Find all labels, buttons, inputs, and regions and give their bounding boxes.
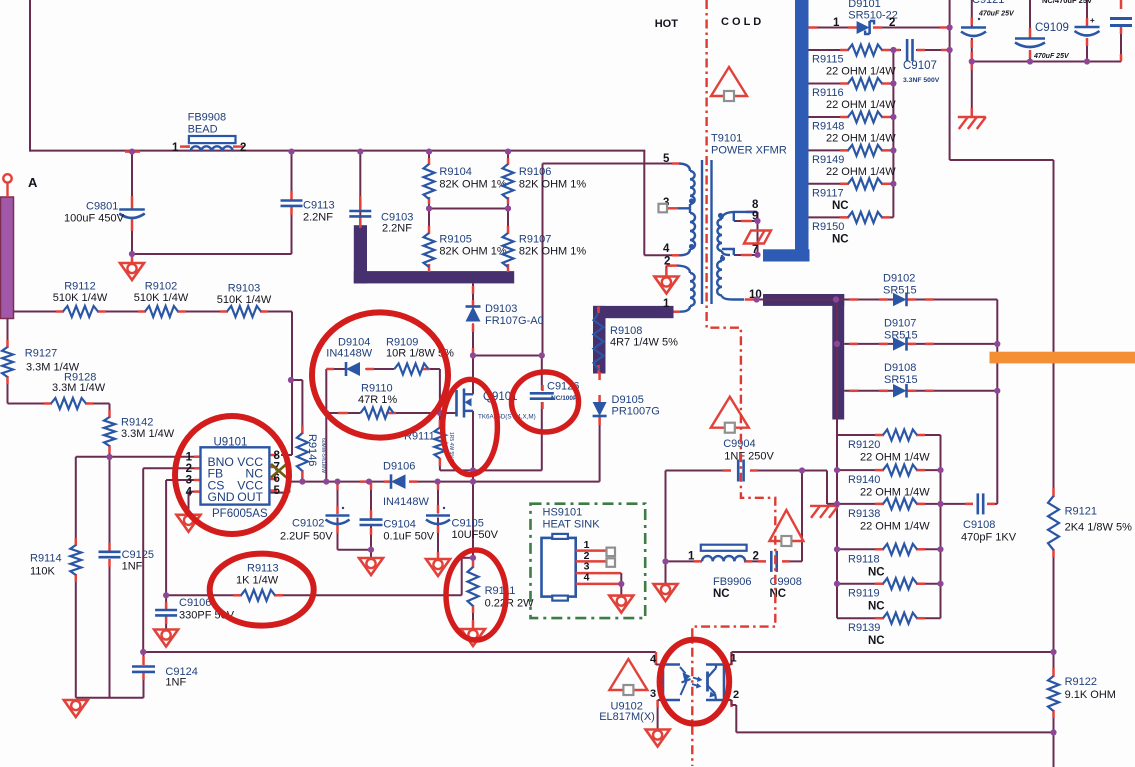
resistor R9103 [217,283,272,318]
wire diode row D9107 [844,343,997,345]
orange highlight bar [990,352,1135,364]
ground symbol C9104 [359,557,383,575]
svg-text:1: 1 [688,551,695,563]
wire R9111 gate stub [439,413,441,470]
wire R9115 ladder rows [809,50,894,217]
wire R9120 row [837,434,941,436]
wire R9119 row [837,583,941,585]
diode D9105 [593,394,660,418]
wire opto pin2 rail [736,652,1053,767]
svg-text:R9112: R9112 [64,281,96,293]
svg-text:R9118: R9118 [848,553,880,565]
svg-text:4: 4 [650,654,657,666]
svg-text:R9122: R9122 [1065,676,1097,688]
wire FB9906 row [666,560,803,562]
svg-text:HEAT SINK: HEAT SINK [543,519,601,531]
warning triangle COLD top [711,67,747,101]
wire mosfet source lead [465,411,474,558]
chassis ground top right [958,117,986,129]
optocoupler pin labels [650,653,739,702]
ground symbol sense resistor [461,628,485,646]
svg-text:HOT: HOT [655,18,679,30]
warning triangle C9908 [769,510,803,546]
svg-text:NC/100P: NC/100P [551,395,578,402]
wire cap columns C9102 C9104 C9105 [338,482,439,559]
svg-text:R9120: R9120 [848,439,880,451]
resistor R9115 [812,45,896,78]
svg-text:510K 1/4W: 510K 1/4W [217,294,272,306]
svg-text:1NF: 1NF [122,561,143,573]
svg-text:C9104: C9104 [383,519,415,531]
svg-text:C9801: C9801 [86,201,118,213]
optocoupler U9102 label [599,701,655,723]
annotation circle C9126 [512,372,579,432]
wire FB9906 ground drop [665,561,667,584]
heat sink pins [576,539,625,596]
wire sense resistor to ground [472,606,474,628]
svg-text:C9107: C9107 [903,60,937,72]
wire C9107 row [893,49,949,51]
wire R9104 top stub [428,152,430,164]
transformer pin 3 label [663,197,669,209]
svg-text:C9108: C9108 [963,519,995,531]
wire overlay pin10 through bar [757,300,845,426]
optocoupler pin steps [656,652,737,732]
svg-text:1: 1 [663,298,670,310]
wire diode row D9102 [844,300,997,504]
svg-text:82K OHM 1%: 82K OHM 1% [519,246,586,258]
svg-text:R9138: R9138 [848,508,880,520]
capacitor C9103 [349,211,413,235]
svg-text:C9113: C9113 [303,200,335,212]
transformer pin 2 label [664,256,670,268]
svg-text:8: 8 [752,199,759,211]
svg-text:NC/470uF 25V: NC/470uF 25V [1042,0,1092,5]
svg-text:PF6005AS: PF6005AS [212,508,268,520]
wire drain column [473,283,542,390]
svg-text:3.3M 1/4W: 3.3M 1/4W [52,382,106,394]
svg-text:2: 2 [186,463,192,475]
transformer pin 1 label [663,298,670,310]
wire pin5 row U9101 [269,482,599,493]
svg-text:R9103: R9103 [228,283,260,295]
capacitor C9125 [99,549,155,573]
svg-text:R9114: R9114 [30,553,62,565]
resistor R9149 [812,145,896,178]
svg-text:NC: NC [713,588,730,600]
wire mosfet drain lead [465,356,474,395]
wire ground row under C9801 [131,207,292,254]
resistor R9119 [848,578,917,613]
wire R9139 row [837,617,941,619]
svg-text:D9101: D9101 [848,0,880,10]
svg-text:SR515: SR515 [884,330,918,342]
svg-text:3: 3 [650,688,656,700]
svg-text:R9150: R9150 [812,221,844,233]
svg-text:NC: NC [770,588,787,600]
svg-text:D9102: D9102 [883,273,915,285]
svg-text:4: 4 [584,571,590,583]
svg-text:D9107: D9107 [884,318,916,330]
resistor R9108 on bar [594,307,679,371]
bus bar C9103 L-shape [354,225,514,283]
ferrite bead FB9906 [688,545,759,600]
svg-text:OUT: OUT [237,490,263,504]
svg-text:8: 8 [274,450,281,462]
resistor R9111 sense 0.22R [468,567,535,610]
wire R9112 row [13,311,292,313]
svg-text:R9149: R9149 [812,154,844,166]
annotation circle Q9101 [443,379,498,474]
wire pin4 ground stub [189,492,195,514]
svg-text:R9146: R9146 [306,434,318,466]
capacitor C9107 [903,39,940,84]
svg-text:22 OHM 1/4W: 22 OHM 1/4W [826,66,896,78]
svg-text:R9113: R9113 [247,563,279,575]
ground symbol heat sink [609,595,633,613]
svg-text:110K: 110K [30,566,56,578]
resistor R9138 [848,498,930,532]
annotation circle sense resistor [446,550,506,640]
svg-text:4R7 1/4W 5%: 4R7 1/4W 5% [610,337,678,349]
capacitor C9104 [360,519,435,543]
transformer primary winding 2-1 [677,266,695,312]
svg-text:C9105: C9105 [452,518,484,530]
svg-text:D9108: D9108 [884,362,916,374]
wire ladder right column [940,435,942,618]
svg-text:TK6A65D(ST 4,X,M): TK6A65D(ST 4,X,M) [478,414,536,421]
resistor R9109 [386,337,454,375]
svg-text:NC: NC [832,200,849,212]
svg-text:9.1K OHM: 9.1K OHM [1065,689,1116,701]
wire C9904 row [666,471,828,562]
resistor R9142 [104,417,175,447]
transformer pin 7 label [752,244,758,256]
resistor R9105 [424,233,507,267]
optocoupler U9102 body [663,665,724,701]
transformer pin 5 label [663,153,670,165]
svg-text:2: 2 [664,256,670,268]
svg-text:POWER XFMR: POWER XFMR [711,145,787,157]
capacitor C9904 [723,438,774,482]
resistor R9140 [848,465,930,499]
wire opto pin3 drop [657,701,659,729]
svg-text:22 OHM 1/4W: 22 OHM 1/4W [826,166,896,178]
resistor R9148 [812,112,896,145]
bus bar blue secondary [763,0,810,262]
svg-text:NC: NC [868,601,885,613]
svg-text:FB9906: FB9906 [713,576,752,588]
svg-text:PR1007G: PR1007G [612,406,660,418]
svg-text:5: 5 [274,485,281,497]
svg-text:BEAD: BEAD [188,124,218,136]
wire bottom right rail [732,651,1054,653]
svg-text:SR515: SR515 [883,285,917,297]
wire cap bus top right [972,0,1121,117]
diode D9101 [833,0,898,34]
wire ladder left column [836,300,838,619]
ground symbol left bus [64,699,88,717]
wire R9146 branch [291,380,302,482]
svg-text:R9115: R9115 [812,54,844,66]
svg-text:IN4148W: IN4148W [383,496,429,508]
resistor R9139 [848,613,917,648]
resistor R9120 [848,430,930,464]
capacitor C9908 [770,551,802,600]
resistor R9150 [812,212,882,246]
transformer pin 8 label [752,199,759,211]
svg-text:1NF: 1NF [165,677,186,689]
svg-text:4: 4 [663,243,670,255]
capacitor C9113 [281,200,335,224]
svg-text:3.3M 1/4W: 3.3M 1/4W [121,428,175,440]
wire diode row D9108 [844,390,997,392]
svg-text:NC: NC [868,635,885,647]
svg-text:R9106: R9106 [519,166,551,178]
svg-text:510K 1/4W: 510K 1/4W [134,292,189,304]
resistor R9116 [812,78,896,111]
resistor R9113 [236,563,279,601]
capacitor C9109 [1015,22,1070,60]
svg-text:C9109: C9109 [1035,22,1069,34]
resistor R9122 [1048,676,1116,711]
capacitor C9108 [961,493,1017,543]
svg-text:2: 2 [753,551,759,563]
svg-text:R9102: R9102 [145,281,177,293]
wire C9103 column [359,152,361,226]
svg-text:1: 1 [833,17,840,29]
wire pin2 xfmr ground stub [666,266,672,276]
diode D9103 [466,303,544,327]
mosfet Q9101 [457,389,536,421]
resistor R9110 [358,383,397,419]
wire pin5 feeder [543,164,674,357]
resistor R9107 [503,233,587,267]
wire source row to C9126 [440,402,542,470]
wire pin10 row through bar [745,299,845,301]
resistor R9104 [424,164,507,199]
diode D9108 [884,362,918,398]
wire pin2 riser [143,468,194,652]
wire long bottom rail [144,652,656,665]
resistor R9118 [848,544,917,579]
wire R9106 top stub [507,152,509,164]
transformer secondary winding 7-10 [717,249,744,300]
warning flag parallelogram [744,231,771,244]
svg-text:R9111: R9111 [485,585,516,597]
svg-text:D9103: D9103 [485,303,517,315]
svg-text:U9101: U9101 [214,437,248,449]
svg-text:2: 2 [240,142,246,154]
wire D9101 row [809,27,950,29]
wire R9109 to gate corner [365,369,440,413]
svg-text:C9125: C9125 [122,549,154,561]
svg-text:2.2NF: 2.2NF [382,223,412,235]
svg-text:470uF 25V: 470uF 25V [978,11,1015,18]
svg-text:2.2UF 50V: 2.2UF 50V [280,531,333,543]
svg-text:D9106: D9106 [383,461,415,473]
ground symbol U9101 pin4 [177,514,201,532]
svg-text:2: 2 [889,17,895,29]
capacitor top right corner [1110,19,1132,26]
label D9103 top cut text [0,0,1,1]
svg-text:0.22R 2W: 0.22R 2W [485,598,535,610]
svg-text:FR107G-A0: FR107G-A0 [485,315,544,327]
wire right column x950 [950,0,1054,652]
capacitor C9106 [155,597,235,622]
resistor R9121 [1048,496,1132,550]
ferrite bead FB9908 [172,112,246,155]
bus bar transformer pin1 [593,306,674,374]
svg-text:NC: NC [868,566,885,578]
svg-text:82K OHM 1%: 82K OHM 1% [439,179,506,191]
svg-text:10UF50V: 10UF50V [452,529,499,541]
bus bar input magenta [1,197,14,319]
svg-text:470pF 1KV: 470pF 1KV [961,532,1017,544]
bus bar transformer pin10 [763,294,844,420]
svg-text:R9105: R9105 [439,234,471,246]
svg-text:R9127: R9127 [25,348,57,360]
ground symbol C9105 [426,558,450,576]
svg-text:1: 1 [186,451,193,463]
wire C9108 row [941,503,998,505]
svg-text:SR515: SR515 [884,374,918,386]
wire R9140 row [837,469,941,471]
svg-text:R9110: R9110 [361,383,393,395]
wire C9124 top [143,652,145,664]
wire pin3 riser [166,480,194,595]
svg-text:82K OHM 1%: 82K OHM 1% [439,246,506,258]
resistor R9127 [2,347,80,377]
svg-text:1K 1/4W: 1K 1/4W [236,575,279,587]
svg-text:R9104: R9104 [439,166,471,178]
ground symbol C9106 [154,629,178,647]
capacitor NC/470uF [1042,0,1100,36]
wire main top bus [30,0,673,255]
svg-text:C O L D: C O L D [721,16,761,28]
capacitor C9126 [530,381,580,402]
wire R9127 chain [8,319,110,458]
svg-text:R9121: R9121 [1065,506,1097,518]
annotation circle D9104 R9110 [312,312,448,437]
svg-text:FB9908: FB9908 [188,112,227,124]
svg-text:47R 1%: 47R 1% [358,394,397,406]
wire D9105 column [599,416,601,482]
capacitor C9801 [64,201,145,225]
resistor R9117 [812,178,882,212]
wire cap4 column [1120,0,1122,62]
annotation circle U9102 opto [660,640,730,724]
svg-text:2.2NF: 2.2NF [303,212,333,224]
wire R9138 row [827,503,941,505]
resistor R9106 [503,164,587,199]
svg-text:4: 4 [186,486,193,498]
wire R9114 column [75,457,77,698]
wire C9125 column [109,457,111,698]
wire R9105 R9107 bottoms to bar [429,267,508,272]
svg-text:22 OHM 1/4W: 22 OHM 1/4W [860,487,930,499]
transformer secondary winding 8-7 [718,212,757,255]
wire R9104-R9106 mid row [429,199,508,233]
svg-text:100uF 450V: 100uF 450V [64,213,125,225]
svg-text:R9117: R9117 [812,187,844,199]
svg-text:C9904: C9904 [723,438,755,450]
resistor R9111 gate [404,428,454,467]
warning triangle C9904 [711,397,749,433]
svg-text:EL817M(X): EL817M(X) [599,711,655,723]
capacitor C9105 [426,507,499,541]
svg-text:1: 1 [172,142,179,154]
svg-text:HS9101: HS9101 [543,507,583,519]
transformer primary winding 3-4 [679,208,695,255]
diode D9106 [383,461,429,509]
chassis ground R9138 row [810,506,838,518]
wire C9106 stub [165,595,167,629]
annotation circle R9113 [210,554,314,626]
heat sink HS9101 box [531,504,646,618]
transformer primary winding 5-3 [678,164,695,209]
wire R9118 row [837,548,941,550]
resistor R9114 [30,545,81,578]
resistor R9102 [134,281,189,318]
svg-text:+: + [1090,16,1095,25]
svg-text:82K OHM 1%: 82K OHM 1% [519,179,586,191]
capacitor C9124 [132,666,198,689]
svg-text:22 OHM 1/4W: 22 OHM 1/4W [860,452,930,464]
warning triangle U9102 [609,659,647,695]
no-connect X mark pins 6-7 [271,464,287,478]
annotation circle U9101 [175,416,289,534]
labels HOT COLD [655,16,761,30]
wire pin1 row [76,456,194,458]
wire C9113 top stub [291,152,293,199]
heat sink HS9101 body [542,507,601,601]
svg-text:C9121: C9121 [972,0,1004,6]
svg-text:R9140: R9140 [848,474,880,486]
svg-text:22 OHM 1/4W: 22 OHM 1/4W [860,520,930,532]
wire ground bus bottom left [76,674,144,698]
svg-text:22 OHM 1/4W: 22 OHM 1/4W [826,99,896,111]
svg-text:C9102: C9102 [292,518,324,530]
svg-text:R9148: R9148 [812,121,844,133]
wire cap NC column [1086,0,1088,62]
svg-text:R9142: R9142 [121,417,153,429]
resistor R9146 [297,433,326,473]
svg-text:1NF 250V: 1NF 250V [724,451,774,463]
svg-text:R9119: R9119 [848,588,880,600]
transformer pin 3 square pad [659,204,668,213]
svg-text:3: 3 [186,475,192,487]
wire C9801 column [131,152,133,254]
ground symbol xfmr pin2 [654,276,678,294]
svg-text:5: 5 [663,153,670,165]
svg-text:T9101: T9101 [711,133,742,145]
svg-text:R9108: R9108 [610,325,642,337]
wire D9104 branch left [326,369,346,482]
svg-text:3.3NF 500V: 3.3NF 500V [903,77,940,84]
svg-text:2K4 1/8W 5%: 2K4 1/8W 5% [1065,522,1132,534]
svg-text:510K 1/4W: 510K 1/4W [53,292,108,304]
diode D9102 [883,273,917,307]
svg-text:470uF 25V: 470uF 25V [1033,53,1070,60]
svg-text:0.1uF 50V: 0.1uF 50V [383,531,434,543]
node A terminal [3,174,38,197]
ground symbol FB9906 [654,583,678,601]
capacitor C9102 [280,507,350,543]
transformer pin 10 label [749,289,762,301]
isolation dash-dot line HOT COLD [692,0,775,766]
wire pin8 riser [281,312,292,456]
